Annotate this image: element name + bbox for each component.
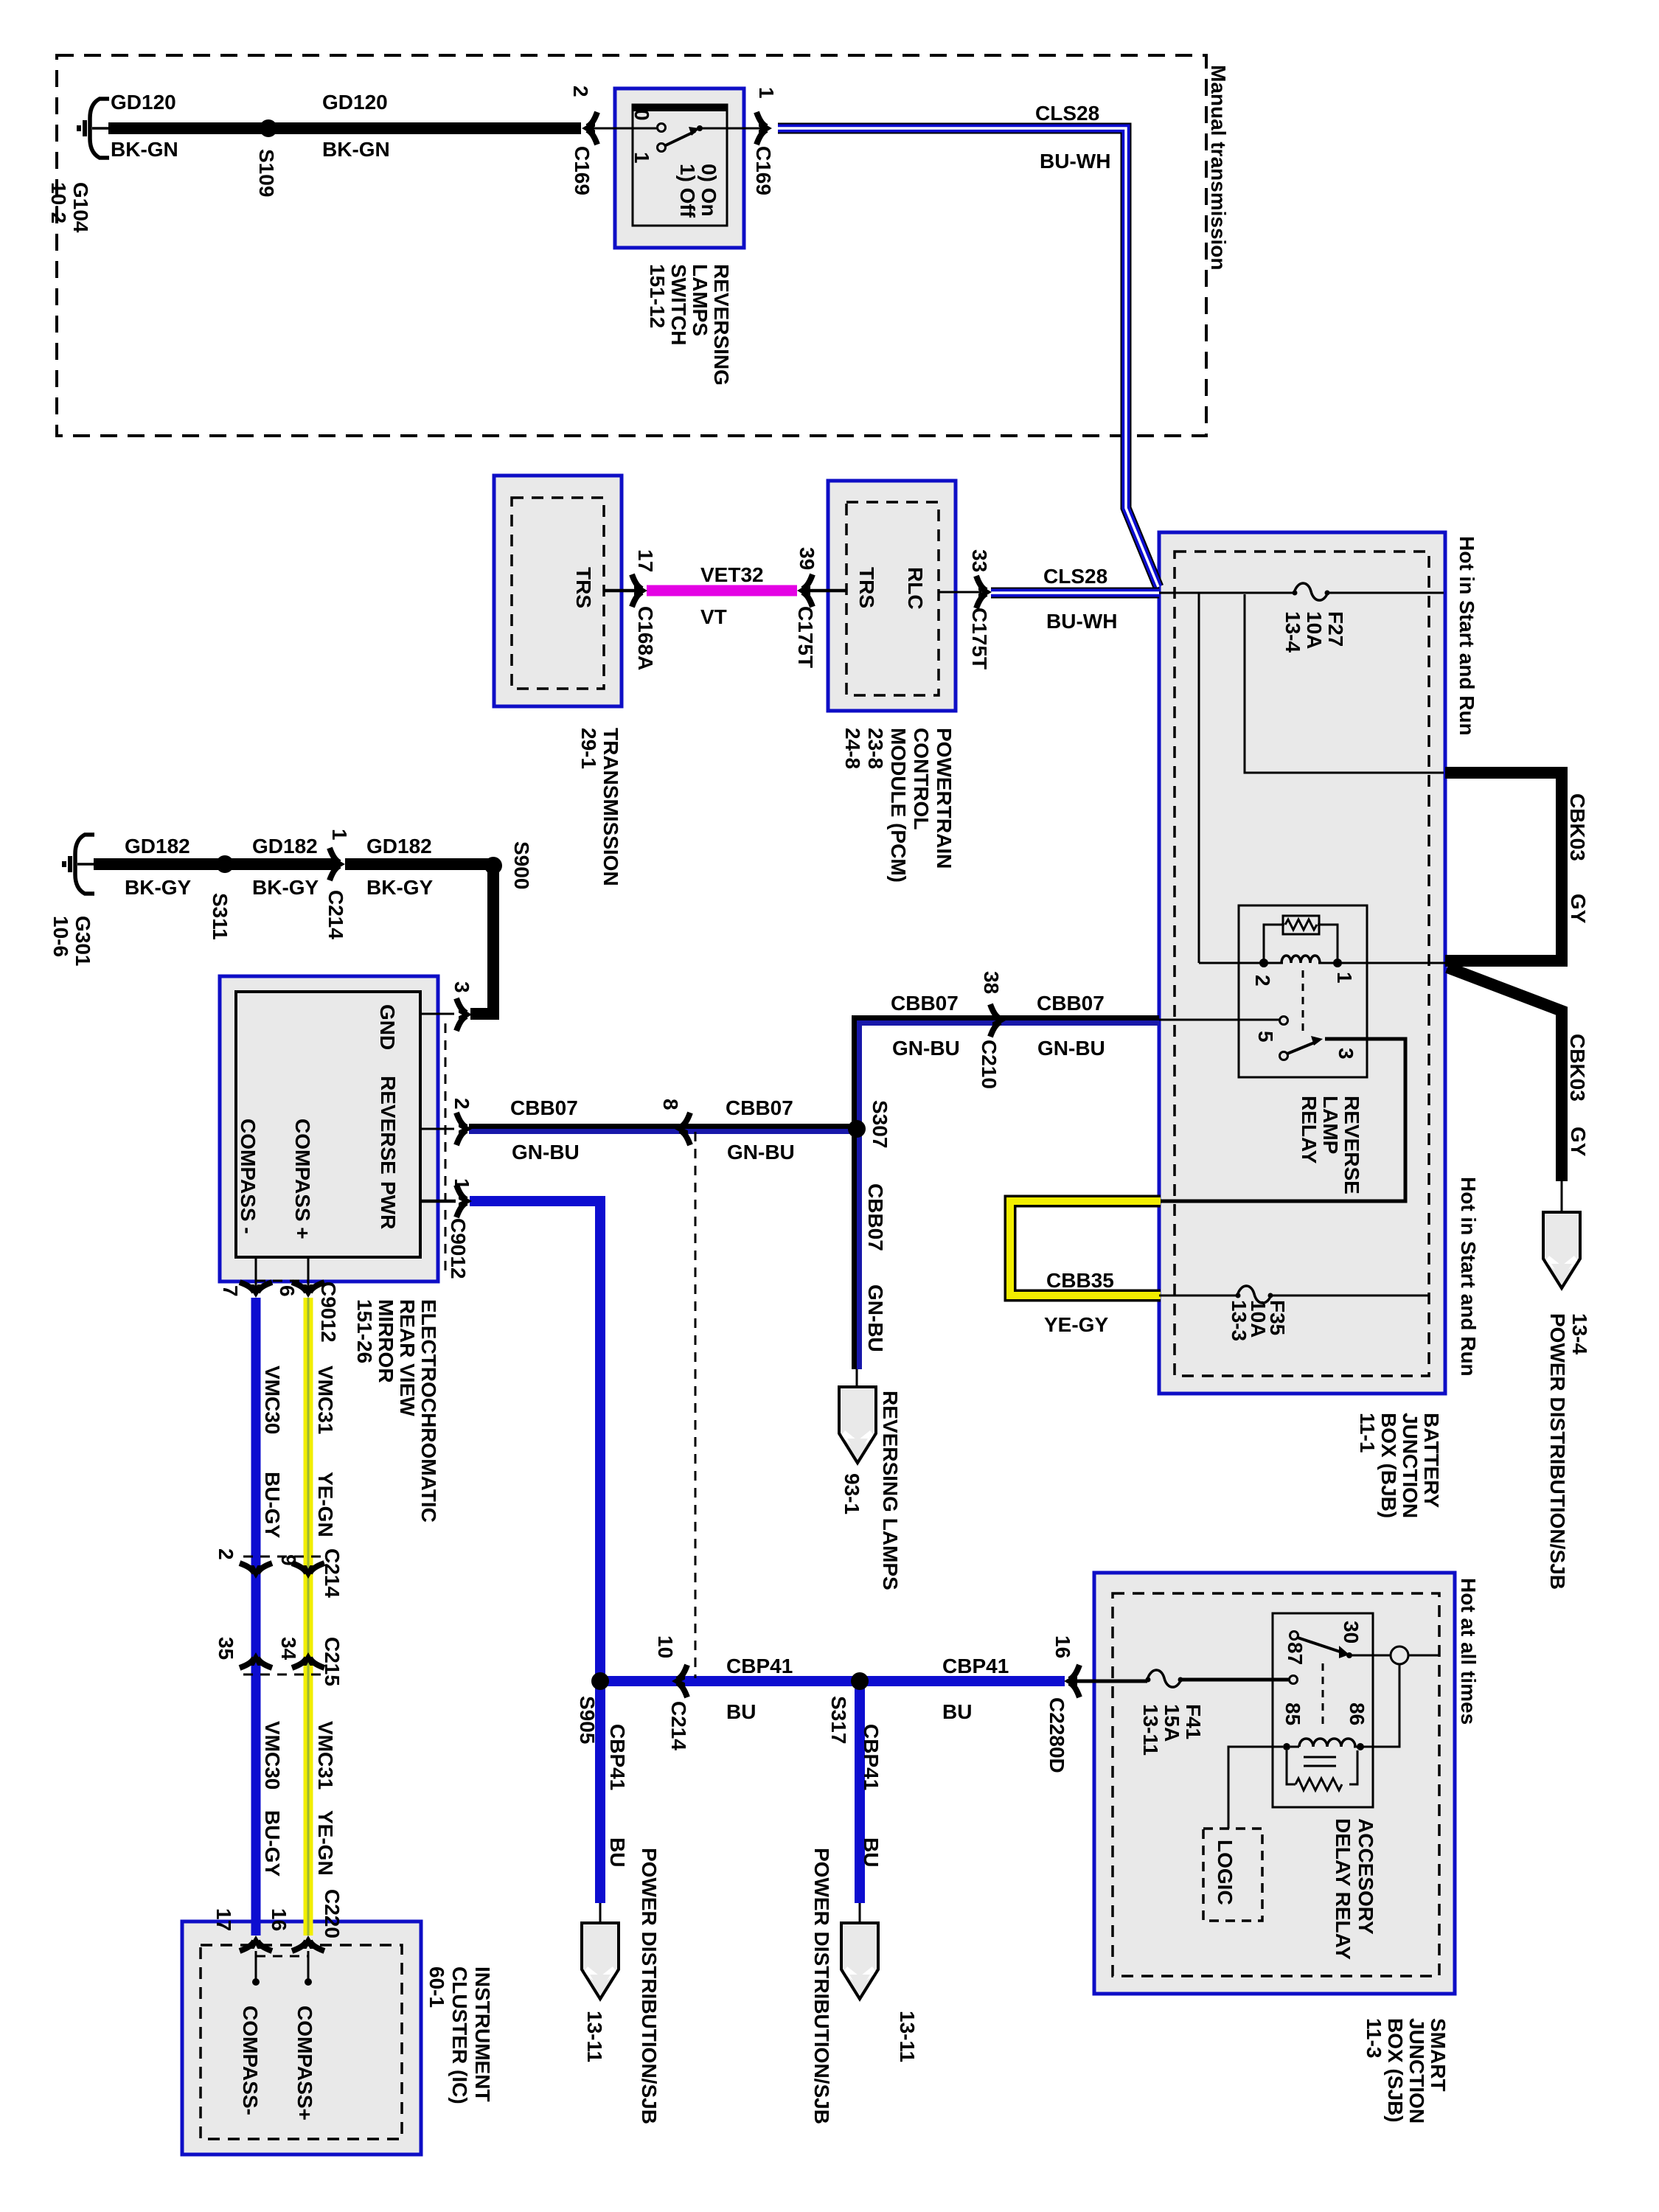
svg-text:1: 1	[328, 829, 351, 841]
svg-text:6: 6	[276, 1285, 299, 1297]
svg-text:VT: VT	[700, 605, 727, 628]
wire CBP41 BU S317 down to power distribution	[855, 1681, 865, 1903]
wire VMC31 YE-GN mirror pin6 down to IC pin16	[304, 1298, 313, 1935]
svg-text:BU-GY: BU-GY	[261, 1472, 284, 1539]
mirror pin2 lead	[420, 1128, 454, 1130]
dashed lever line in accessory delay relay	[1322, 1663, 1324, 1725]
wire VET32 VT: transmission TRS to PCM TRS	[604, 589, 639, 593]
svg-text:2: 2	[1251, 975, 1274, 987]
wire GD182 S900 down to mirror GND pin3	[470, 860, 493, 1014]
wire GD182 run G301 to S311 to C214	[94, 858, 336, 870]
svg-text:Hot in Start and Run: Hot in Start and Run	[1455, 536, 1478, 736]
ground G301	[64, 835, 94, 894]
SJB relay pin87 lead contact	[1290, 1676, 1298, 1684]
relay pin3 to CBB35 exit	[1161, 1039, 1405, 1201]
svg-text:GD182: GD182	[366, 835, 432, 858]
relay pin5 lead from CBB07	[1159, 1019, 1280, 1021]
svg-text:33: 33	[968, 549, 991, 572]
pentagon 13-11 power distribution left	[582, 1923, 619, 1999]
wire CBP41 BU mirror pin1 to S905 and down	[470, 1201, 600, 1903]
SJB relay pin86 contact	[1357, 1743, 1364, 1750]
relay pin2 dot	[1259, 959, 1268, 967]
svg-text:BK-GY: BK-GY	[125, 876, 192, 899]
connector C220 pin16 chevron	[292, 1937, 324, 1951]
SJB: fuse to relay pin 87	[1181, 1678, 1289, 1682]
wire: PCM RLC pin lead	[939, 591, 981, 594]
mirror pin6 chevron	[292, 1282, 324, 1296]
svg-text:3: 3	[1335, 1048, 1357, 1060]
pentagon reversing lamps 93-1	[839, 1387, 876, 1463]
svg-text:CBB07: CBB07	[510, 1096, 578, 1119]
connector C215 pin35 chevron	[240, 1654, 272, 1668]
svg-text:1: 1	[755, 87, 778, 99]
wire GD182 C214 to S900	[345, 858, 493, 870]
svg-text:S311: S311	[209, 893, 232, 940]
svg-text:GN-BU: GN-BU	[512, 1141, 580, 1164]
svg-text:REVERSE: REVERSE	[377, 1076, 400, 1175]
svg-text:F3510A13-3: F3510A13-3	[1228, 1300, 1289, 1341]
wire GD120 ground run G104 to S109 to C169	[108, 122, 581, 134]
svg-text:CBB07: CBB07	[726, 1096, 793, 1119]
svg-text:C169: C169	[571, 146, 594, 195]
svg-text:GN-BU: GN-BU	[864, 1284, 887, 1352]
splice S109	[260, 119, 277, 137]
mirror pin1 lead	[420, 1200, 456, 1203]
connector C214 pin9 chevron	[292, 1563, 324, 1577]
svg-text:C9012: C9012	[317, 1281, 340, 1343]
connector C168A pin17 chevron	[632, 574, 646, 607]
svg-text:POWER DISTRIBUTION/SJB: POWER DISTRIBUTION/SJB	[638, 1848, 661, 2124]
SJB relay coil leads	[1290, 1746, 1299, 1748]
pentagon 13-11 power distribution right	[841, 1923, 878, 1999]
svg-text:VMC31: VMC31	[314, 1721, 337, 1790]
splice S900	[484, 857, 502, 874]
reversing lamps switch box	[615, 88, 744, 248]
battery junction box BJB	[1159, 532, 1445, 1394]
svg-text:GD120: GD120	[111, 91, 176, 114]
svg-text:CLS28: CLS28	[1043, 565, 1107, 588]
dashed connector line C9012 bottom	[256, 1280, 308, 1282]
mirror pin3 chevron	[456, 998, 470, 1031]
mirror pin7 pin6 stems	[255, 1257, 257, 1289]
svg-text:39: 39	[796, 547, 818, 570]
mirror pin1 chevron	[456, 1185, 470, 1217]
instrument cluster box	[182, 1921, 421, 2154]
mirror pin2 chevron	[456, 1113, 470, 1145]
IC pin17 pin16 stems	[255, 1951, 257, 1982]
wire CBB07 GN-BU mirror pin2 to S307	[469, 1127, 857, 1132]
svg-text:COMPASS-: COMPASS-	[239, 2006, 262, 2115]
svg-text:GN-BU: GN-BU	[892, 1037, 960, 1060]
svg-text:S317: S317	[827, 1696, 850, 1744]
switch contact 1	[658, 144, 666, 152]
svg-text:GY: GY	[1567, 1127, 1590, 1157]
relay pin5 contact	[1280, 1017, 1288, 1025]
svg-text:16: 16	[268, 1908, 291, 1931]
connector C220 pin17 chevron	[240, 1937, 272, 1951]
svg-text:86: 86	[1346, 1703, 1368, 1725]
relay resistor box	[1283, 916, 1319, 934]
switch lever	[664, 131, 695, 146]
svg-text:TRS: TRS	[572, 567, 595, 608]
svg-text:S900: S900	[510, 841, 533, 889]
svg-text:COMPASS +: COMPASS +	[291, 1119, 314, 1239]
svg-text:10: 10	[654, 1635, 677, 1658]
svg-text:C175T: C175T	[968, 608, 991, 669]
wire CBB07 GN-BU S307 up and to BJB pin5	[855, 1018, 1160, 1130]
splice S311	[216, 855, 234, 873]
svg-text:GN-BU: GN-BU	[1037, 1037, 1105, 1060]
connector C169 pin1 chevron	[757, 112, 771, 145]
fuse F35	[1236, 1286, 1273, 1303]
relay pin1 dot	[1333, 959, 1342, 967]
svg-text:34: 34	[277, 1637, 300, 1660]
svg-text:2: 2	[215, 1548, 237, 1560]
svg-text:13-11: 13-11	[896, 2011, 919, 2062]
dashed connector line C9012 right	[445, 1023, 447, 1275]
svg-text:BU-GY: BU-GY	[261, 1810, 284, 1877]
svg-text:CBP41: CBP41	[606, 1724, 629, 1790]
svg-text:BK-GY: BK-GY	[252, 876, 319, 899]
svg-text:GD182: GD182	[125, 835, 190, 858]
SJB relay: capacitor bars	[1304, 1756, 1336, 1759]
wire: switch output lead to C169 pin1	[701, 128, 762, 130]
smart junction box SJB	[1094, 1573, 1455, 1994]
svg-text:VMC30: VMC30	[261, 1366, 284, 1434]
svg-text:BU: BU	[942, 1700, 972, 1723]
SJB relay: 30 line to right	[1351, 1655, 1391, 1657]
svg-text:1: 1	[630, 152, 653, 164]
svg-text:BK-GN: BK-GN	[322, 138, 390, 161]
svg-text:C214: C214	[321, 1548, 344, 1598]
BJB inner: vertical feed to relay coil	[1198, 593, 1200, 963]
wire CLS28 BU-WH upper run: switch to BJB	[778, 128, 1158, 587]
svg-text:CLS28: CLS28	[1035, 102, 1099, 125]
svg-text:BK-GY: BK-GY	[366, 876, 434, 899]
connector C214 pin1 chevron (GD182)	[330, 848, 344, 880]
svg-text:16: 16	[1051, 1635, 1074, 1658]
SJB relay lever to 30	[1298, 1638, 1342, 1652]
svg-text:85: 85	[1281, 1703, 1304, 1725]
connector C210 pin38 chevron	[990, 1004, 1004, 1037]
svg-text:C175T: C175T	[794, 606, 817, 668]
svg-text:YE-GN: YE-GN	[314, 1472, 337, 1537]
svg-text:YE-GN: YE-GN	[314, 1810, 337, 1876]
svg-text:YE-GY: YE-GY	[1044, 1313, 1108, 1336]
wire CBK03 GY upper U loop	[1445, 773, 1562, 961]
svg-text:C214: C214	[324, 890, 347, 939]
splice S307	[848, 1120, 866, 1138]
powertrain control module box	[828, 481, 956, 711]
dashed connector line C214 long vertical	[695, 1132, 697, 1678]
svg-text:GND: GND	[376, 1004, 399, 1050]
SJB relay pin87 upper contact	[1290, 1632, 1298, 1640]
connector C2280D pin16 chevron	[1065, 1665, 1079, 1697]
svg-text:LOGIC: LOGIC	[1214, 1840, 1237, 1905]
svg-text:CBB35: CBB35	[1046, 1269, 1114, 1292]
connector C214 pin10 chevron	[673, 1665, 687, 1697]
svg-text:1: 1	[1333, 972, 1356, 984]
svg-text:S109: S109	[255, 149, 278, 197]
svg-text:COMPASS+: COMPASS+	[293, 2006, 316, 2121]
svg-text:C215: C215	[321, 1637, 344, 1686]
svg-text:2: 2	[451, 1098, 473, 1110]
accessory delay relay outline	[1273, 1613, 1373, 1807]
mirror pin7 chevron	[240, 1282, 272, 1296]
mirror pin3 lead	[420, 1013, 454, 1015]
ground G104	[79, 99, 109, 158]
svg-text:17: 17	[212, 1908, 235, 1931]
svg-text:87: 87	[1284, 1642, 1307, 1665]
svg-text:7: 7	[219, 1285, 242, 1297]
svg-text:BU: BU	[726, 1700, 756, 1723]
svg-text:CBK03: CBK03	[1566, 1034, 1589, 1102]
svg-text:Manual transmission: Manual transmission	[1207, 65, 1230, 271]
svg-text:35: 35	[215, 1637, 237, 1660]
svg-text:C2280D: C2280D	[1046, 1697, 1068, 1773]
svg-text:Hot at all times: Hot at all times	[1457, 1578, 1480, 1725]
transmission box	[494, 476, 622, 706]
LOGIC dashed box	[1203, 1829, 1262, 1921]
svg-text:CBB07: CBB07	[864, 1183, 887, 1251]
wire: thin lead into switch C169	[588, 128, 658, 130]
fuse F27	[1293, 583, 1330, 600]
svg-text:9: 9	[277, 1554, 300, 1566]
svg-text:30: 30	[1340, 1621, 1363, 1644]
svg-text:BU-WH: BU-WH	[1046, 610, 1117, 633]
SJB relay: 85 to LOGIC	[1228, 1747, 1283, 1829]
splice S905	[591, 1672, 609, 1690]
svg-text:CBB07: CBB07	[891, 992, 959, 1015]
svg-text:GY: GY	[1567, 894, 1590, 924]
svg-text:BU-WH: BU-WH	[1040, 150, 1110, 173]
svg-text:VMC30: VMC30	[261, 1721, 284, 1790]
svg-text:VET32: VET32	[700, 563, 764, 586]
svg-text:3: 3	[451, 981, 473, 993]
svg-text:0) On1) Off: 0) On1) Off	[676, 164, 720, 218]
switch contact 0	[658, 124, 666, 132]
svg-text:CBB07: CBB07	[1037, 992, 1105, 1015]
svg-text:BU: BU	[860, 1837, 883, 1867]
electrochromatic rear view mirror box	[220, 976, 438, 1281]
relay coil main line pin2-pin1	[1199, 962, 1283, 964]
Manual transmission dashed enclosure	[57, 55, 1206, 436]
svg-text:TRS: TRS	[855, 567, 878, 608]
connector chevron 8 on CBB07	[676, 1113, 690, 1145]
BJB inner: F35 line	[1159, 1295, 1237, 1297]
connector C169 pin2 chevron	[583, 112, 597, 145]
svg-text:REVERSING LAMPS: REVERSING LAMPS	[879, 1391, 902, 1590]
connector C214 pin2 chevron	[240, 1563, 272, 1577]
svg-text:GD182: GD182	[252, 835, 318, 858]
svg-text:S307: S307	[869, 1100, 891, 1148]
connector C215 pin34 chevron	[292, 1654, 324, 1668]
svg-text:C214: C214	[667, 1701, 690, 1750]
SJB relay coil	[1299, 1739, 1355, 1747]
svg-text:38: 38	[980, 971, 1003, 994]
svg-text:0: 0	[630, 109, 653, 121]
svg-text:F2710A13-4: F2710A13-4	[1281, 611, 1347, 653]
svg-text:2: 2	[569, 86, 592, 97]
BJB inner: F27 feed line	[1159, 592, 1294, 594]
svg-text:C9012: C9012	[447, 1218, 470, 1279]
svg-text:C169: C169	[752, 146, 775, 195]
relay coil	[1281, 956, 1320, 963]
svg-text:RLC: RLC	[904, 567, 927, 610]
pentagon 13-4 power distribution	[1543, 1212, 1580, 1288]
connector C175T pin33 chevron	[976, 576, 990, 608]
svg-text:S905: S905	[576, 1696, 599, 1744]
relay parallel resistor leads	[1264, 925, 1284, 963]
dashed connector line C214 mirror wires	[243, 1556, 321, 1558]
svg-text:POWER DISTRIBUTION/SJB: POWER DISTRIBUTION/SJB	[810, 1848, 833, 2124]
svg-text:8: 8	[659, 1099, 682, 1110]
SJB relay pin85 contact	[1283, 1743, 1290, 1750]
svg-text:BU: BU	[606, 1837, 629, 1867]
svg-text:CBK03: CBK03	[1566, 793, 1589, 861]
svg-text:5: 5	[1254, 1031, 1277, 1043]
dashed connector line C215	[243, 1674, 321, 1676]
svg-text:17: 17	[634, 549, 657, 572]
svg-text:1: 1	[451, 1178, 473, 1190]
svg-text:CBP41: CBP41	[942, 1655, 1009, 1677]
svg-text:GD120: GD120	[322, 91, 388, 114]
reverse lamp relay outline	[1239, 905, 1367, 1077]
svg-text:C168A: C168A	[634, 606, 657, 670]
wire CBB07 GN-BU S307 down to reversing lamps	[855, 1129, 860, 1369]
SJB relay: 86 feed from 30 node	[1363, 1664, 1399, 1747]
wire CBB35 YE-GY loop	[1010, 1201, 1161, 1295]
svg-text:C220: C220	[321, 1889, 344, 1938]
svg-text:COMPASS -: COMPASS -	[237, 1119, 260, 1234]
SJB relay: resistor legs	[1287, 1750, 1295, 1784]
svg-text:BK-GN: BK-GN	[111, 138, 178, 161]
SJB: C2280D lead to fuse F41	[1071, 1680, 1147, 1683]
relay pin3 lever	[1280, 1052, 1288, 1060]
fuse F41	[1146, 1670, 1183, 1687]
svg-text:C210: C210	[978, 1040, 1001, 1089]
svg-text:13-11: 13-11	[583, 2011, 606, 2062]
svg-text:CBP41: CBP41	[726, 1655, 793, 1677]
connector C175T pin39 chevron	[799, 574, 813, 607]
dashed connector line C220	[256, 1955, 308, 1958]
wire CBK03 GY lower run to power distribution	[1447, 967, 1562, 1181]
svg-text:VMC31: VMC31	[314, 1366, 337, 1434]
svg-text:Hot in Start and Run: Hot in Start and Run	[1457, 1177, 1480, 1377]
svg-text:CBP41: CBP41	[860, 1724, 883, 1790]
wire CLS28 BU-WH lower run: PCM to BJB	[991, 588, 1159, 599]
wire CBP41 BU S905 to S317 to C2280D	[600, 1676, 1065, 1686]
SJB node circle on 30 line	[1391, 1646, 1408, 1664]
wire VMC30 BU-GY mirror pin7 down to IC pin17	[251, 1298, 261, 1935]
svg-text:PWR: PWR	[377, 1181, 400, 1229]
splice S317	[851, 1672, 869, 1690]
svg-text:93-1: 93-1	[841, 1473, 863, 1514]
svg-text:GN-BU: GN-BU	[727, 1141, 795, 1164]
BJB inner: branch down to CBK03 exit	[1245, 594, 1444, 773]
SJB relay resistor	[1295, 1778, 1342, 1790]
dashed lever line in reverse lamp relay	[1302, 970, 1304, 1037]
